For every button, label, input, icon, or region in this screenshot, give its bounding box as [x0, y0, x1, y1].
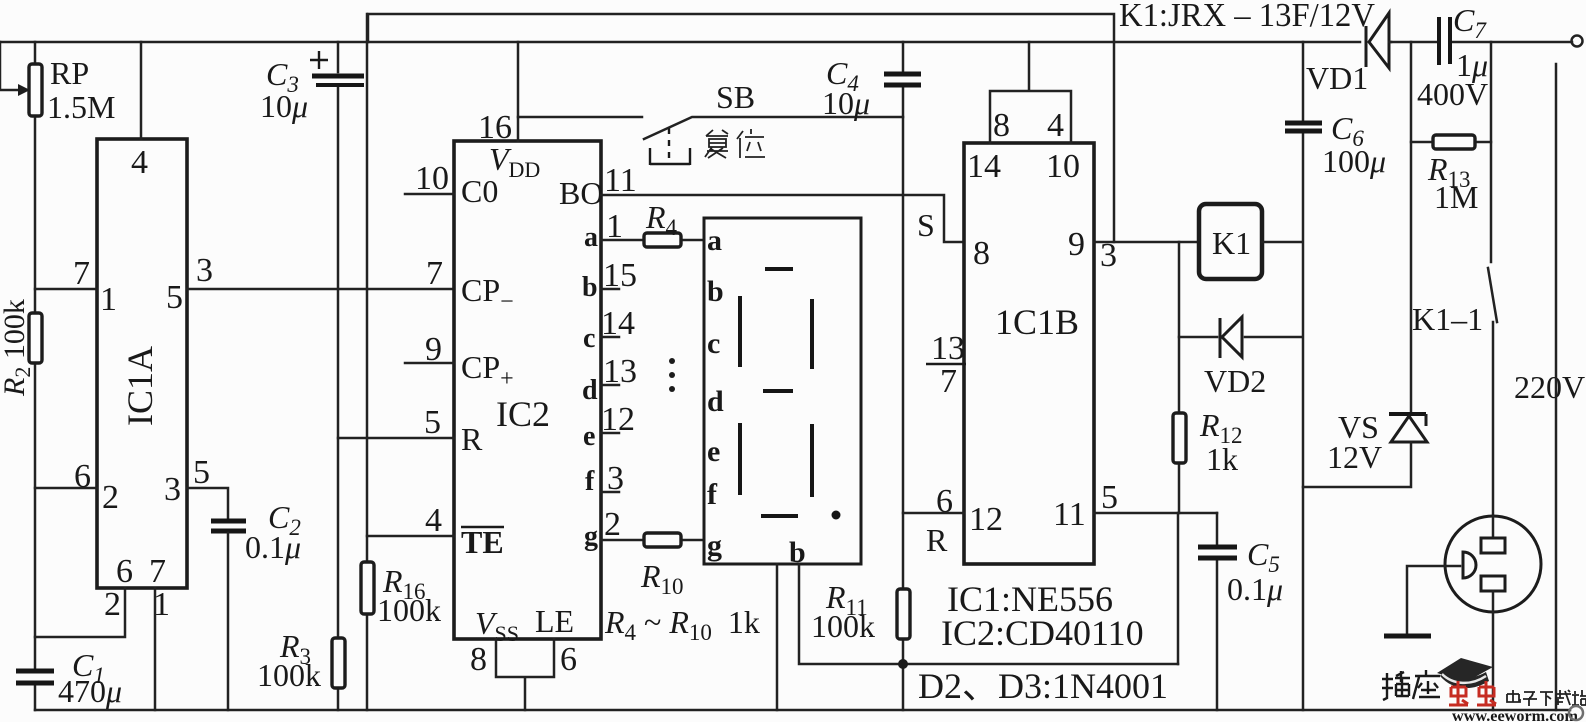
resistor R2 [29, 313, 42, 363]
svg-text:100μ: 100μ [1322, 143, 1386, 179]
svg-text:b: b [789, 536, 806, 569]
ellipsis dots [669, 358, 675, 392]
timer IC1B box [964, 143, 1094, 564]
watermark cap [1437, 658, 1493, 688]
svg-text:10: 10 [1046, 148, 1080, 185]
svg-text:220V: 220V [1514, 369, 1585, 405]
svg-text:C0: C0 [461, 173, 498, 209]
svg-text:4: 4 [1047, 107, 1064, 144]
pin 9 stub [405, 362, 454, 365]
svg-text:VD2: VD2 [1204, 363, 1266, 399]
capacitor C3 polarized [310, 51, 364, 85]
pin 3/5 wire to C2 [187, 488, 228, 518]
svg-text:1: 1 [100, 281, 117, 318]
switch SB button symbol [650, 128, 690, 165]
svg-text:6: 6 [560, 641, 577, 678]
socket D slot [1463, 552, 1476, 578]
switch SB wire left [518, 116, 642, 119]
svg-text:15: 15 [603, 257, 637, 294]
resistor R3 [332, 638, 345, 688]
switch K1-1 [1488, 268, 1497, 516]
svg-text:a: a [707, 224, 722, 257]
svg-text:K1: K1 [1212, 225, 1251, 261]
svg-text:8: 8 [973, 235, 990, 272]
pin 4 wire [367, 535, 454, 538]
pin 3 stub [601, 491, 619, 494]
svg-text:6: 6 [936, 483, 953, 520]
svg-text:a: a [584, 222, 598, 253]
capacitor C5 [1198, 513, 1237, 710]
pin 6 12 wire [903, 512, 964, 515]
svg-text:14: 14 [601, 305, 635, 342]
counter IC2 box [454, 141, 601, 639]
pin 9 3 wire to K1 [1094, 241, 1199, 244]
socket bottom slot [1481, 576, 1505, 710]
wire bottom rail ground [35, 709, 1570, 712]
svg-text:b: b [707, 275, 724, 308]
svg-text:3: 3 [607, 460, 624, 497]
svg-text:2: 2 [104, 586, 121, 623]
display decimal point [832, 511, 841, 520]
svg-text:0.1μ: 0.1μ [1227, 571, 1283, 607]
svg-text:400V: 400V [1417, 76, 1488, 112]
svg-text:RP: RP [50, 55, 89, 91]
socket circle [1445, 516, 1541, 612]
IC1A bottom pin 2 route [35, 588, 125, 637]
svg-text:e: e [707, 435, 720, 468]
terminal output top right [1572, 36, 1583, 47]
svg-text:K1:JRX – 13F/12V: K1:JRX – 13F/12V [1119, 0, 1375, 34]
pin 13 label with underline [926, 330, 966, 367]
svg-text:100k: 100k [377, 592, 441, 628]
display common wire [776, 564, 779, 710]
potentiometer RP [0, 42, 42, 116]
svg-text:g: g [707, 529, 722, 562]
svg-text:7: 7 [73, 255, 90, 292]
wire outer left line [366, 14, 369, 710]
watermark circle [1569, 706, 1583, 720]
watermark chongchong red [1449, 681, 1496, 705]
svg-text:6: 6 [74, 458, 91, 495]
display b wire [799, 564, 1178, 664]
relay K1 box [1199, 204, 1262, 279]
pin 16 wire [517, 42, 520, 141]
svg-text:IC1A: IC1A [120, 346, 160, 426]
IC1A bottom pin 1 wire [154, 588, 157, 710]
resistor R10 [601, 533, 704, 547]
ground bar [1384, 634, 1431, 639]
svg-text:1k: 1k [1206, 441, 1238, 477]
svg-text:14: 14 [967, 148, 1001, 185]
capacitor C7 [1439, 17, 1450, 65]
IC2 bottom pins 8 6 [496, 639, 554, 710]
svg-text:0.1μ: 0.1μ [245, 529, 301, 565]
svg-text:3: 3 [196, 252, 213, 289]
switch SB blade [644, 117, 903, 139]
pin 6/2 wire [35, 487, 97, 490]
resistor R4 [601, 233, 704, 247]
svg-text:7: 7 [149, 553, 166, 590]
capacitor C1 [16, 671, 54, 683]
svg-text:11: 11 [1053, 496, 1086, 533]
display segments [740, 269, 812, 516]
svg-text:D2、D3:1N4001: D2、D3:1N4001 [918, 666, 1168, 706]
pin 5 wire [338, 437, 454, 440]
svg-text:4: 4 [131, 144, 148, 181]
svg-text:1.5M: 1.5M [47, 89, 115, 125]
svg-text:1: 1 [153, 586, 170, 623]
svg-text:6: 6 [116, 553, 133, 590]
svg-text:R: R [926, 522, 948, 558]
svg-text:9: 9 [1068, 226, 1085, 263]
svg-text:1M: 1M [1434, 179, 1478, 215]
IC types note [941, 579, 1144, 653]
IC2 output letters a-g [582, 222, 598, 552]
resistor R16 [361, 562, 374, 614]
wire R12 branch [1178, 242, 1179, 664]
capacitor C4 [884, 74, 921, 85]
zener VS [1303, 414, 1427, 487]
pin 11 5 wire to C5 [1094, 512, 1217, 515]
wire C6 ground bus [1302, 42, 1305, 710]
svg-text:5: 5 [1101, 479, 1118, 516]
svg-text:LE: LE [535, 603, 574, 639]
svg-text:10μ: 10μ [260, 88, 308, 124]
svg-text:9: 9 [425, 331, 442, 368]
svg-text:10μ: 10μ [822, 85, 870, 121]
watermark site text [1507, 690, 1586, 706]
svg-text:R2 100k: R2 100k [0, 299, 35, 397]
socket top slot [1481, 516, 1505, 553]
svg-text:b: b [582, 272, 598, 303]
wire top rail B supply [0, 41, 1572, 44]
svg-text:12: 12 [601, 401, 635, 438]
svg-text:R: R [461, 421, 483, 457]
svg-text:IC2: IC2 [496, 394, 550, 434]
svg-text:4: 4 [425, 502, 442, 539]
wire top rail A outer [368, 14, 1114, 242]
svg-text:8: 8 [470, 641, 487, 678]
svg-text:7: 7 [940, 363, 957, 400]
op-amp IC1A box [97, 139, 187, 588]
junction node [898, 659, 908, 669]
svg-text:12V: 12V [1327, 439, 1382, 475]
svg-text:www.eeworm.com: www.eeworm.com [1452, 708, 1579, 722]
resistor R11 [897, 589, 910, 639]
wire R13 right branch [1490, 42, 1493, 262]
capacitor C2 [211, 521, 246, 710]
K1 right wire [1262, 241, 1302, 244]
svg-text:2: 2 [102, 479, 119, 516]
svg-text:VD1: VD1 [1306, 60, 1368, 96]
pin 7/1 wire [35, 288, 97, 291]
svg-text:d: d [707, 385, 724, 418]
pin 4 wire top [140, 42, 143, 139]
svg-text:13: 13 [603, 353, 637, 390]
svg-text:2: 2 [604, 506, 621, 543]
capacitor C6 [1285, 123, 1322, 131]
svg-text:f: f [707, 478, 718, 511]
display box [704, 218, 861, 564]
svg-text:d: d [582, 375, 598, 406]
TE label with overline [461, 524, 504, 560]
pin 12 stub [601, 432, 619, 435]
svg-text:c: c [583, 323, 595, 354]
BO to S wire [601, 195, 964, 242]
svg-text:IC2:CD40110: IC2:CD40110 [941, 613, 1144, 653]
wire C3 R3 bus [337, 42, 340, 710]
diode VD2 [1179, 317, 1302, 358]
svg-text:3: 3 [164, 471, 181, 508]
svg-text:K1–1: K1–1 [1412, 301, 1483, 337]
svg-text:BO: BO [559, 175, 603, 211]
IC1B top bracket pins 8 4 [990, 42, 1071, 143]
svg-text:1: 1 [606, 208, 623, 245]
pin 10 stub [405, 193, 454, 196]
svg-text:10: 10 [415, 160, 449, 197]
svg-text:S: S [917, 207, 935, 243]
wire left bus [34, 42, 37, 710]
svg-text:SB: SB [716, 79, 755, 115]
svg-text:5: 5 [193, 454, 210, 491]
resistor R12 [1173, 413, 1186, 463]
wire C4 bus [902, 42, 905, 710]
diode VD1 [1366, 13, 1391, 68]
resistor R13 [1411, 135, 1491, 149]
svg-text:e: e [583, 421, 595, 452]
svg-text:11: 11 [604, 162, 637, 199]
svg-text:f: f [585, 466, 595, 497]
socket left wire [1407, 566, 1460, 634]
svg-text:12: 12 [969, 501, 1003, 538]
wire 220V line [1555, 64, 1558, 710]
pin 5/3 wire to IC2 [187, 288, 454, 291]
socket label chazuo [1382, 670, 1440, 700]
display pin letters [707, 224, 724, 562]
svg-text:1C1B: 1C1B [995, 302, 1079, 342]
svg-text:100k: 100k [257, 657, 321, 693]
wire R13 left branch [1410, 42, 1413, 412]
reset text fuwei [705, 129, 765, 158]
pin 15 stub [601, 288, 619, 291]
svg-text:5: 5 [166, 279, 183, 316]
pin 13 stub [601, 384, 619, 387]
svg-text:c: c [707, 327, 720, 360]
svg-text:g: g [584, 521, 598, 552]
svg-text:8: 8 [993, 107, 1010, 144]
svg-text:100k: 100k [811, 608, 875, 644]
svg-text:7: 7 [426, 255, 443, 292]
svg-text:470μ: 470μ [58, 673, 122, 709]
pin 14 stub [601, 336, 619, 339]
svg-text:5: 5 [424, 404, 441, 441]
svg-text:TE: TE [461, 524, 504, 560]
svg-text:13: 13 [931, 330, 965, 367]
